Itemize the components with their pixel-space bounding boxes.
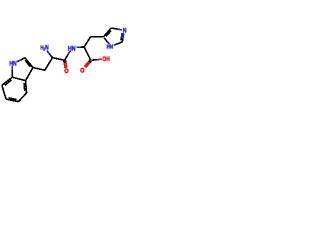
svg-text:HN: HN [107, 45, 113, 51]
bond C3a-C7a indole (fused) [12, 77, 25, 80]
bond N-Calpha his (N half) [76, 46, 80, 48]
bond C=O amide (O half) [63, 63, 66, 68]
bond C7-C7a benzene main [2, 77, 12, 85]
bond N1-C2 indole (N half) [17, 60, 21, 62]
bond N1-C5 imidazole (C half) [104, 38, 107, 42]
bond C2-N1 imidazole (C half) [117, 42, 123, 44]
bond C6-C7 benzene [2, 85, 6, 99]
bond C7=C7a benzene inner [5, 80, 12, 85]
bond Calpha-C carbonyl [53, 58, 65, 61]
bond C5=C4 imidazole inner [106, 31, 111, 37]
svg-text:HN: HN [9, 60, 16, 67]
molecule structure: Trp-His dipeptide [0, 0, 130, 130]
bond CH2-C5 imidazole [91, 36, 104, 38]
bond C7a-N1 indole (N half) [11, 66, 13, 70]
bond C5=C4 imidazole main [104, 28, 112, 37]
svg-text:OH: OH [102, 57, 109, 63]
bond C5=C6 benzene inner [9, 98, 17, 100]
bond C=O amide (C half) [65, 60, 67, 62]
bond C-N amide (C half) [65, 54, 69, 60]
bond Calpha-COOH [84, 47, 91, 61]
bond CH2-Calpha trp [45, 58, 53, 71]
bond C2=C3 indole main [25, 58, 33, 68]
bond Calpha-NH2 (C half) [50, 54, 53, 58]
bond C=O acid (C half) [88, 60, 90, 62]
bond C5-C6 benzene main [6, 99, 18, 102]
bond C4-N3 imidazole (C half) [111, 28, 117, 29]
bond C-OH acid (C half) [91, 59, 97, 62]
svg-text:N: N [45, 44, 49, 51]
svg-text:N: N [123, 28, 127, 35]
bond C=O acid (O half) [86, 63, 90, 68]
bond C3a-C4 benzene main [26, 81, 27, 93]
bond C4-N3 imidazole (N half) [118, 28, 122, 31]
svg-text:O: O [80, 68, 84, 75]
bond N3=C2 imidazole main (N half) [122, 33, 125, 38]
bond N1-C5 imidazole (N half) [107, 42, 109, 44]
bond N3=C2 imidazole inner (N half) [120, 33, 123, 37]
bond N1-C2 indole (C half) [21, 58, 24, 60]
svg-text:O: O [64, 68, 68, 75]
bond C-OH acid (O half) [98, 58, 102, 60]
bond N3=C2 imidazole inner (C half) [120, 37, 123, 40]
bond Calpha-NH2 (N half) [47, 50, 50, 54]
bond C2-N1 imidazole (N half) [114, 44, 117, 45]
bond C7a-N1 indole (C half) [11, 70, 13, 77]
bond C4-C5 benzene [18, 93, 26, 102]
bond Calpha-CH2 his [84, 37, 90, 47]
bond C3a=C4 benzene inner [23, 83, 26, 91]
bond C=O amide (O half) [65, 63, 68, 68]
bond C2=C3 indole inner [25, 60, 30, 66]
bond C=O acid (C half) [90, 61, 92, 63]
bond C=O amide (C half) [63, 61, 65, 63]
bond C=O acid (O half) [84, 62, 88, 67]
bond N3=C2 imidazole main (C half) [121, 39, 124, 43]
svg-text:HN: HN [68, 45, 76, 52]
bond C3-CH2 trp [33, 68, 45, 71]
bond N-Calpha his (C half) [81, 46, 85, 48]
bond C3-C3a indole [26, 68, 34, 81]
bond C-N amide (N half) [68, 51, 70, 55]
